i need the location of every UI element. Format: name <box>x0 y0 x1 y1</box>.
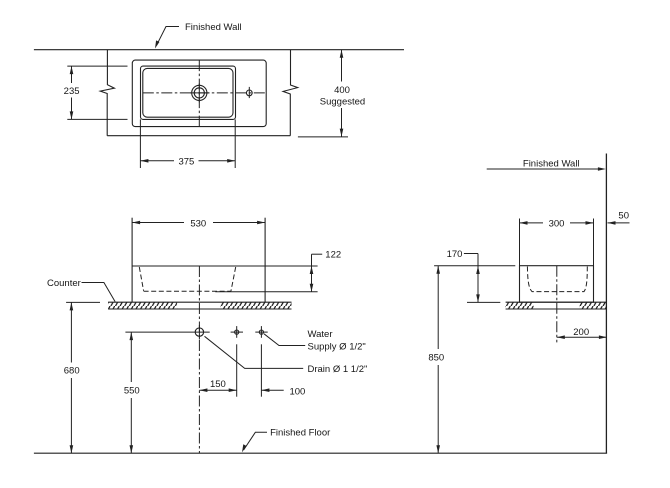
dimension 680 <box>70 302 74 453</box>
svg-text:Counter: Counter <box>47 278 81 289</box>
dimension 235 <box>70 66 74 119</box>
svg-text:Finished Floor: Finished Floor <box>270 428 330 439</box>
front view: sink left wall / extension <box>131 218 133 303</box>
floor line <box>34 452 607 454</box>
front view: sink right wall / extension <box>264 218 266 303</box>
svg-text:Suggested: Suggested <box>320 96 365 107</box>
svg-text:50: 50 <box>618 210 629 221</box>
svg-text:Finished Wall: Finished Wall <box>185 22 242 33</box>
dimension 300 <box>520 221 594 225</box>
finished wall leader (plan) <box>157 27 179 46</box>
svg-text:122: 122 <box>325 249 341 260</box>
faucet hole circle (plan) <box>246 90 252 96</box>
supply hole left cross ticks <box>231 331 243 333</box>
front view: basin bottom dashed line <box>144 290 231 292</box>
counter outline right vertical with break (plan) <box>283 50 298 136</box>
vertical centerline (plan) <box>198 60 200 127</box>
550 extension line (drain level) <box>125 331 209 333</box>
finished wall leader arrow (side view) <box>487 167 606 171</box>
dimension 150 <box>199 388 236 392</box>
svg-text:Supply Ø 1/2": Supply Ø 1/2" <box>308 342 366 353</box>
dimension 850 <box>436 266 440 454</box>
850 extension line (sink top level) <box>434 265 515 267</box>
counter hatched band (side view) right part <box>579 302 607 309</box>
dimension 530 <box>132 221 265 225</box>
solid centerline crossing at front drain <box>198 325 200 340</box>
svg-text:375: 375 <box>178 156 194 167</box>
svg-text:300: 300 <box>549 218 565 229</box>
dimension 400 suggested <box>340 50 344 137</box>
front view: basin right dashed slant <box>231 267 236 291</box>
counter band top line (front view) <box>108 301 291 303</box>
svg-text:150: 150 <box>210 379 226 390</box>
dimension 50 <box>608 221 630 225</box>
counter outline left vertical with break (plan) <box>100 50 114 136</box>
dimension 550 <box>130 332 134 453</box>
counter band bottom line (front view) <box>108 308 291 310</box>
supply hole right cross ticks <box>255 331 267 333</box>
horizontal centerline (plan) <box>143 92 266 94</box>
counter leader <box>82 283 116 302</box>
counter band top line (side view) <box>506 301 607 303</box>
drain circle (front view) <box>195 328 203 336</box>
counter hatched band (front view) left part <box>108 302 177 309</box>
svg-text:Drain Ø 1 1/2": Drain Ø 1 1/2" <box>308 364 368 375</box>
svg-text:680: 680 <box>64 366 80 377</box>
dimension 375 <box>140 159 235 163</box>
counter hatched band (front view) right part <box>221 302 292 309</box>
svg-text:550: 550 <box>124 386 140 397</box>
drain inner circle (plan) <box>194 88 204 98</box>
vertical centerline (front view) <box>198 266 200 453</box>
vertical centerline (side view) <box>556 266 558 343</box>
170 extension line (counter level) <box>467 301 500 303</box>
svg-text:530: 530 <box>190 219 206 230</box>
basin inner rect (plan) <box>143 68 233 117</box>
supply hole left circle (front view) <box>235 330 239 334</box>
counter outline bottom line (plan) <box>107 135 290 137</box>
svg-text:170: 170 <box>447 249 463 260</box>
dimension 100 <box>261 388 283 392</box>
dimension 122 <box>310 254 323 292</box>
sink rim rounded rect (plan) <box>132 60 266 127</box>
svg-text:400: 400 <box>334 85 350 96</box>
svg-text:Water: Water <box>308 329 333 340</box>
svg-text:200: 200 <box>573 327 589 338</box>
122 extension line (basin bottom level) <box>215 291 317 293</box>
wall line (plan view) <box>34 49 404 51</box>
faucet hole vertical tick <box>248 87 250 98</box>
drain leader <box>205 336 304 368</box>
counter hatched band (side view) left part <box>506 302 534 309</box>
svg-text:850: 850 <box>428 353 444 364</box>
front view: sink rim top line with 122 extension <box>132 265 318 267</box>
finished floor leader <box>244 432 267 450</box>
solid centerline crossing at plan drain (vertical) <box>198 84 200 103</box>
dimension 375 extension lines <box>139 119 141 168</box>
drain outer circle (plan) <box>192 85 207 100</box>
svg-text:235: 235 <box>64 86 80 97</box>
supply hole right circle (front view) <box>259 330 263 334</box>
svg-text:Finished Wall: Finished Wall <box>523 158 580 169</box>
finished wall vertical line (side view) <box>605 154 607 454</box>
solid centerline crossing at plan drain (horizontal) <box>190 92 210 94</box>
300 extension lines (side view) <box>519 219 521 266</box>
dimension 400 extension line (bottom) <box>298 136 348 138</box>
sink body rect (side view) <box>520 266 594 303</box>
supply extension verticals <box>236 344 238 396</box>
dimension 235 extension lines <box>67 65 127 67</box>
water supply leader <box>264 334 305 346</box>
front view: basin left dashed slant <box>139 267 143 291</box>
dimension 680 extension line (counter level) <box>66 301 100 303</box>
svg-text:100: 100 <box>289 387 305 398</box>
basin dashed outline (side view) <box>527 267 587 292</box>
counter band bottom line (side view) <box>506 308 607 310</box>
basin outer rect (plan) <box>141 66 236 119</box>
dimension 200 <box>557 335 607 339</box>
